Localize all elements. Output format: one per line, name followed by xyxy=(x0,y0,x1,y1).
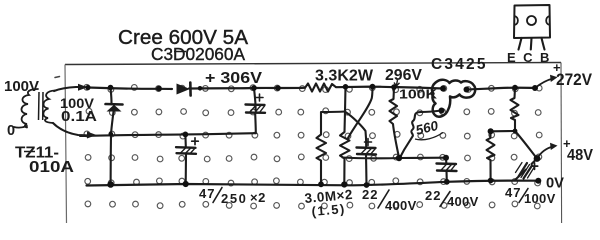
svg-text:3.3K2W: 3.3K2W xyxy=(315,68,373,85)
svg-text:×2: ×2 xyxy=(250,190,266,205)
solder dots xyxy=(85,84,541,188)
svg-text:010A: 010A xyxy=(29,159,75,176)
package leg C xyxy=(530,38,533,50)
divider node horizontal wire xyxy=(491,130,515,132)
svg-text:296V: 296V xyxy=(385,67,423,84)
svg-text:100V: 100V xyxy=(524,191,556,206)
svg-text:C3D02060A: C3D02060A xyxy=(151,44,245,64)
resistor 560 wavy xyxy=(400,112,421,158)
arrow to +48V xyxy=(537,147,553,159)
capacitor 47/100V plates xyxy=(519,163,533,179)
capacitor C1 plus sign xyxy=(256,94,263,101)
wire: long diagonal from rail dot 372 to 3.0M no.2 top xyxy=(348,87,373,139)
capacitor 22/400 no.2 bottom plate xyxy=(437,169,457,172)
underline flourish of 560 xyxy=(415,133,443,140)
capacitor 47/100V plus xyxy=(531,163,537,170)
svg-text:C3425: C3425 xyxy=(431,56,488,73)
svg-text:ECB: ECB xyxy=(507,50,557,65)
svg-text:0.1A: 0.1A xyxy=(61,109,98,125)
series diode D2 on top rail xyxy=(177,84,191,95)
capacitor 22/400 no.1 top plate xyxy=(357,146,376,149)
jog wire to 3.0M no.1 xyxy=(321,110,345,113)
svg-text:48V: 48V xyxy=(567,147,593,164)
wire: vertical from mid rail through cap C2 to 0V rail xyxy=(184,134,187,183)
capacitor C2 hatch xyxy=(181,148,196,154)
svg-text:+ 306V: + 306V xyxy=(205,70,262,87)
resistor divider bottom xyxy=(487,131,495,180)
svg-text:250: 250 xyxy=(221,191,248,206)
capacitor C1 bottom plate xyxy=(246,111,265,114)
capacitor C2 47/250 top plate xyxy=(176,146,196,149)
svg-text:272V: 272V xyxy=(556,71,592,89)
wire: cap 22/400 no.2 from node to 0V xyxy=(445,158,448,182)
svg-text:22: 22 xyxy=(425,188,441,203)
wire: D1 to mid rail and down to 0V rail xyxy=(111,112,114,185)
capacitor 47/100V diagonal to 0V xyxy=(516,159,538,180)
stroke through D of C3D xyxy=(174,51,186,53)
shunt diode D1 triangle xyxy=(107,105,122,112)
capacitor 22/400 no.2 hatch xyxy=(441,164,456,171)
svg-text:0V: 0V xyxy=(546,175,564,192)
0V bottom rail wire xyxy=(87,181,539,186)
arrow to 272V xyxy=(535,79,553,89)
primary lead to 0 xyxy=(14,126,27,128)
capacitor C2 plus sign xyxy=(192,138,199,145)
resistor 3.0M no.2 xyxy=(340,132,350,185)
secondary bottom lead with arrow into board xyxy=(53,123,92,136)
package leg B xyxy=(542,38,545,50)
wire from blob base lead to 560 xyxy=(421,111,442,113)
svg-text:47: 47 xyxy=(199,186,215,201)
mid rail wire (doubler midpoint) xyxy=(80,133,256,136)
wire cap1 bottom to 0V rail xyxy=(365,155,368,185)
secondary top lead with arrow into board xyxy=(54,87,85,91)
capacitor 22/400 no.1 hatch xyxy=(361,148,376,155)
shunt diode D1 cathode bar xyxy=(106,103,123,106)
diagonal wire from jog junction to cap 22/400 no.1 top xyxy=(346,112,367,147)
resistor 3.3K 2W in top rail xyxy=(305,84,336,92)
transistor C3425 blob outline xyxy=(432,80,475,117)
TO-220 package outline xyxy=(514,5,550,38)
wire: vertical from rail to 3.0M pair jog xyxy=(345,87,346,132)
svg-text:47: 47 xyxy=(505,185,521,200)
package left notch xyxy=(515,16,518,25)
capacitor C2 bottom plate xyxy=(177,152,197,155)
transformer secondary winding xyxy=(43,91,55,124)
top rail wire (+306V rail) xyxy=(88,87,535,90)
wire: vertical with shunt diode D1 xyxy=(111,88,112,104)
diagonal wire divider node to output node xyxy=(515,131,537,159)
svg-text:(1.5): (1.5) xyxy=(311,201,346,219)
resistor from 272V rail (divider top) xyxy=(511,88,519,131)
capacitor C1 47/250 top plate xyxy=(246,103,265,106)
svg-text:400V: 400V xyxy=(447,194,479,209)
wire: vertical from +306 rail to mid rail carrying cap C1 xyxy=(254,88,256,133)
capacitor 22/400 no.2 top plate xyxy=(437,162,457,165)
capacitor 22/400 no.1 bottom plate xyxy=(357,153,376,156)
resistor 3.0M no.1 xyxy=(317,112,327,184)
node wire at y158 xyxy=(343,156,447,159)
svg-text:560: 560 xyxy=(414,118,440,138)
svg-text:100V: 100V xyxy=(4,79,39,95)
package right notch xyxy=(546,16,550,25)
svg-text:400V: 400V xyxy=(385,198,417,213)
capacitor 47/100V hatch xyxy=(516,163,535,179)
svg-text:22: 22 xyxy=(362,187,378,202)
resistor 100K vertical xyxy=(390,87,400,157)
svg-text:0: 0 xyxy=(7,123,15,139)
stroke through Z xyxy=(24,151,35,153)
transformer core lines xyxy=(39,92,44,120)
capacitor 22/400 no.1 plus xyxy=(365,139,372,146)
arrow from 296V to rail xyxy=(394,80,400,86)
capacitor C1 hatch xyxy=(250,105,265,113)
transformer primary winding xyxy=(21,89,38,128)
package leg E xyxy=(519,38,522,50)
package center hole xyxy=(527,16,536,25)
